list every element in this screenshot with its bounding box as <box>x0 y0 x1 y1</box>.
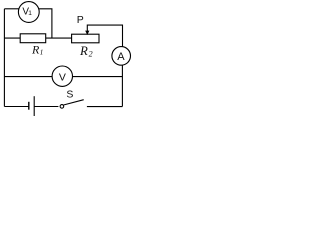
svg-text:P: P <box>77 14 84 26</box>
svg-text:V: V <box>59 72 66 84</box>
svg-text:1: 1 <box>28 10 32 17</box>
switch S lever <box>64 100 84 105</box>
svg-text:S: S <box>66 89 73 101</box>
svg-text:2: 2 <box>89 49 93 58</box>
wire switch to bottom-right corner <box>87 106 123 108</box>
wire left vertical edge <box>3 9 5 107</box>
wire V1 right to down-corner junction node between R1 and R2 <box>39 9 52 38</box>
wire R1 to R2 with junction <box>46 37 72 39</box>
switch S pivot circle <box>60 105 64 109</box>
wire ammeter bottom lead down to V row and bottom-right corner <box>121 65 123 106</box>
wire bottom row left to battery <box>4 106 28 108</box>
voltmeter U3 V circle <box>52 66 72 86</box>
svg-text:A: A <box>117 51 125 63</box>
battery BT1 long plate <box>33 96 35 116</box>
wire V right to ammeter lead junction <box>73 76 123 78</box>
wire V row from left edge to voltmeter V <box>4 76 52 78</box>
voltmeter U1 V1 circle <box>18 2 39 23</box>
resistor R1 body <box>20 34 46 43</box>
svg-text:R: R <box>79 44 88 58</box>
wire slider to ammeter riser <box>87 25 122 47</box>
wire main row left lead to R1 <box>4 37 20 39</box>
wire battery to switch <box>34 106 58 108</box>
rheostat slider arrow P <box>85 31 89 35</box>
resistor R2 rheostat body <box>72 34 99 43</box>
ammeter U2 A circle <box>112 47 131 66</box>
battery BT1 short plate <box>28 102 30 110</box>
svg-text:1: 1 <box>40 48 44 57</box>
wire top row to voltmeter V1 <box>4 8 18 10</box>
